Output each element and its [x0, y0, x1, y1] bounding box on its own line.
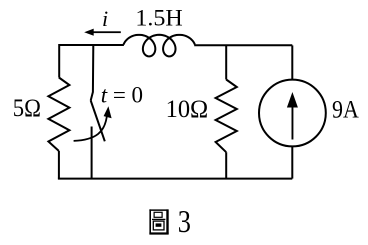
wire right branch lower — [291, 147, 293, 179]
caption glyph tu (figure) — [149, 209, 168, 234]
svg-text:3: 3 — [178, 204, 191, 239]
wire right branch upper — [291, 45, 293, 79]
svg-text:t = 0: t = 0 — [101, 83, 143, 108]
current source arrow — [287, 92, 298, 140]
wire switch branch upper — [91, 45, 94, 101]
inductor L 1.5H coil — [123, 35, 194, 57]
wire switch branch lower — [91, 127, 93, 179]
wire top-left horizontal — [59, 44, 124, 46]
wire left vertical lower — [58, 151, 60, 179]
svg-text:1.5H: 1.5H — [135, 6, 182, 31]
wire top-right horizontal — [194, 44, 292, 46]
wire left vertical upper — [58, 44, 60, 78]
current i arrow — [84, 29, 121, 36]
switch arc arrowhead — [104, 106, 112, 118]
svg-text:9A: 9A — [332, 96, 359, 123]
wire middle branch lower — [225, 152, 227, 178]
wire middle branch upper — [225, 45, 227, 79]
resistor R 10ohm zigzag — [216, 80, 237, 153]
svg-text:i: i — [102, 6, 108, 31]
switch blade — [91, 101, 105, 142]
svg-text:10Ω: 10Ω — [166, 94, 209, 123]
switch motion arc — [74, 113, 108, 141]
current source I1 circle — [259, 80, 326, 147]
svg-text:5Ω: 5Ω — [13, 95, 41, 122]
wire bottom horizontal — [58, 178, 292, 180]
resistor R 5ohm zigzag — [48, 78, 69, 152]
